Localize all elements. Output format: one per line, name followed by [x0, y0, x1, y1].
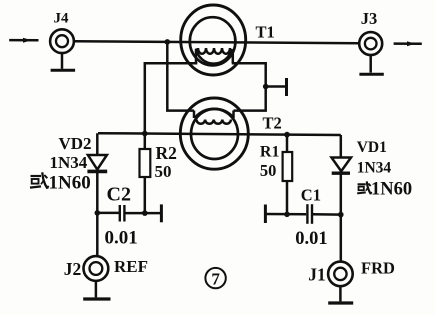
svg-text:0.01: 0.01 [295, 229, 327, 249]
svg-text:50: 50 [155, 162, 172, 181]
svg-text:R2: R2 [156, 143, 177, 163]
svg-text:R1: R1 [260, 143, 280, 160]
svg-text:T1: T1 [256, 23, 275, 42]
svg-text:J4: J4 [54, 10, 70, 26]
svg-text:50: 50 [260, 161, 277, 180]
svg-text:C1: C1 [301, 185, 321, 204]
svg-text:J2: J2 [64, 259, 81, 279]
svg-text:J1: J1 [308, 264, 326, 284]
svg-text:0.01: 0.01 [105, 228, 138, 249]
svg-text:7: 7 [211, 270, 220, 289]
svg-text:C2: C2 [107, 184, 131, 206]
svg-text:REF: REF [114, 257, 148, 276]
svg-text:VD1: VD1 [357, 139, 387, 156]
svg-text:1N60: 1N60 [371, 180, 412, 200]
svg-text:T2: T2 [263, 113, 282, 132]
svg-text:FRD: FRD [361, 259, 395, 278]
svg-text:1N34: 1N34 [50, 153, 88, 172]
svg-text:J3: J3 [361, 9, 378, 28]
svg-text:VD2: VD2 [59, 134, 92, 153]
svg-text:1N60: 1N60 [49, 173, 91, 194]
svg-text:1N34: 1N34 [357, 160, 392, 177]
